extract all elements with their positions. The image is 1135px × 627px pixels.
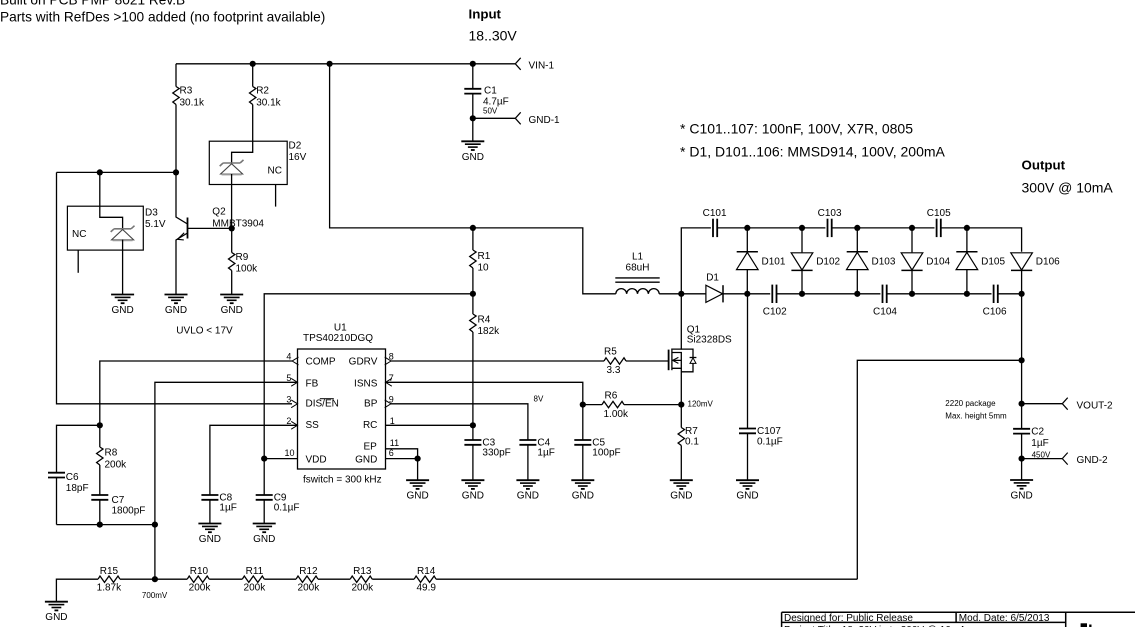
svg-text:300V @ 10mA: 300V @ 10mA <box>1022 180 1114 196</box>
diode D2 (zener, boxed) <box>209 141 306 229</box>
svg-text:D104: D104 <box>926 256 950 267</box>
wire FB to divider <box>155 382 298 579</box>
wire ISNS to R6 <box>386 382 583 404</box>
svg-text:BP: BP <box>364 398 378 409</box>
node UVLO-D3 <box>97 169 103 175</box>
wire UVLO rail <box>57 171 177 173</box>
svg-text:C102: C102 <box>763 306 787 317</box>
svg-text:GND-1: GND-1 <box>529 115 561 126</box>
ground R7 <box>670 480 693 502</box>
svg-text:C7: C7 <box>112 495 125 506</box>
wire to GND-2 terminal <box>1022 458 1063 460</box>
op-amp U1 (controller TPS40210DGQ) <box>284 323 399 470</box>
node top D105 <box>964 225 970 231</box>
svg-text:C6: C6 <box>66 472 79 483</box>
resistor R13 <box>350 566 374 594</box>
wire COMP to compensation <box>100 361 292 425</box>
svg-text:49.9: 49.9 <box>416 583 436 594</box>
node bottom D106 <box>1019 291 1025 297</box>
wire EP pin <box>386 449 418 459</box>
resistor R1 <box>470 228 491 294</box>
wire VIN feed down and across <box>330 64 616 294</box>
node bottom D103 <box>854 291 860 297</box>
svg-text:C2: C2 <box>1031 426 1044 437</box>
svg-text:COMP: COMP <box>306 357 336 368</box>
ground C4 <box>516 480 539 502</box>
ground C8 <box>198 524 221 546</box>
resistor R12 <box>296 566 320 594</box>
ground C1 <box>461 118 484 163</box>
node VIN-feed <box>327 61 333 67</box>
diode D104 <box>901 228 950 294</box>
resistor R4 <box>470 294 500 426</box>
capacitor C105 <box>927 208 951 237</box>
inductor L1 <box>615 252 681 294</box>
node sense tap <box>1019 357 1025 363</box>
node COMP top <box>97 422 103 428</box>
svg-text:Input: Input <box>469 7 502 22</box>
svg-text:RC: RC <box>363 420 377 431</box>
svg-text:D1: D1 <box>706 273 719 284</box>
svg-text:GND: GND <box>355 455 377 466</box>
wire chain seg4 <box>318 578 350 580</box>
wire to VOUT-2 terminal <box>1022 403 1063 405</box>
svg-text:6: 6 <box>389 448 394 458</box>
wire GND pin <box>386 459 418 481</box>
svg-text:EP: EP <box>363 442 377 453</box>
svg-text:R8: R8 <box>105 448 118 459</box>
svg-text:C101: C101 <box>703 208 727 219</box>
wire sense line <box>857 360 1021 579</box>
wire BP to C4 <box>391 404 528 440</box>
svg-text:200k: 200k <box>189 583 212 594</box>
svg-text:Designed for: Public Release: Designed for: Public Release <box>784 613 913 624</box>
node bottom D105 <box>964 291 970 297</box>
wire chain left to ground <box>56 579 98 602</box>
svg-text:U1: U1 <box>334 323 347 334</box>
node top D104 <box>909 225 915 231</box>
terminal GND-2 <box>1062 453 1108 467</box>
svg-text:NC: NC <box>72 229 86 240</box>
svg-text:200k: 200k <box>105 460 128 471</box>
capacitor C101 <box>703 208 727 237</box>
wire RC pin <box>386 424 473 426</box>
wire chain seg3 <box>264 578 296 580</box>
terminal VOUT-2 <box>1062 398 1113 412</box>
svg-text:C107: C107 <box>757 426 781 437</box>
capacitor C1 <box>464 64 508 119</box>
resistor R5 <box>604 347 669 377</box>
capacitor C6 <box>48 425 100 524</box>
svg-text:TPS40210DGQ: TPS40210DGQ <box>303 333 373 344</box>
svg-text:18pF: 18pF <box>66 483 89 494</box>
svg-text:D106: D106 <box>1036 256 1060 267</box>
svg-text:R5: R5 <box>604 347 617 358</box>
ground C2 <box>1010 459 1033 502</box>
svg-text:200k: 200k <box>351 583 374 594</box>
node GND-2 <box>1019 456 1025 462</box>
capacitor C102 <box>763 285 787 318</box>
resistor R3 <box>173 64 205 173</box>
svg-text:R4: R4 <box>478 315 491 326</box>
resistor R9 <box>229 228 259 294</box>
svg-text:3: 3 <box>286 395 291 405</box>
svg-text:30.1k: 30.1k <box>180 98 205 109</box>
logo (partial TI mark) <box>1081 623 1092 627</box>
diode D3 (zener, boxed) <box>67 172 166 294</box>
wire chain seg1 <box>155 578 187 580</box>
node top D102 <box>799 225 805 231</box>
svg-text:5.1V: 5.1V <box>145 219 166 230</box>
node UVLO-R3-Q2 <box>173 169 179 175</box>
node VDD-C9 <box>261 456 267 462</box>
svg-text:D2: D2 <box>289 141 302 152</box>
svg-text:68uH: 68uH <box>626 263 650 274</box>
svg-text:R9: R9 <box>236 252 249 263</box>
svg-text:700mV: 700mV <box>142 591 168 600</box>
wire mult bottom rail 2 <box>777 293 881 295</box>
svg-text:0.1µF: 0.1µF <box>274 503 300 514</box>
svg-text:10: 10 <box>284 448 294 458</box>
svg-text:1.00k: 1.00k <box>604 409 629 420</box>
svg-text:C103: C103 <box>818 208 842 219</box>
ground U1 <box>406 480 429 502</box>
svg-text:C104: C104 <box>873 306 897 317</box>
wire mult bottom rail 1 <box>747 293 770 295</box>
svg-text:200k: 200k <box>298 583 321 594</box>
wire output column <box>1021 294 1023 429</box>
transistor Q1 <box>669 294 732 405</box>
svg-text:R11: R11 <box>246 566 264 577</box>
wire mult bottom rail 4 <box>998 293 1022 295</box>
svg-text:R14: R14 <box>417 566 436 577</box>
svg-text:D105: D105 <box>981 256 1005 267</box>
ground Q2 <box>165 295 188 317</box>
capacitor C7 <box>91 495 145 525</box>
node 700mV <box>152 576 158 582</box>
capacitor C3 <box>464 425 510 480</box>
svg-text:R1: R1 <box>478 251 491 262</box>
node comp bottom right <box>152 522 158 528</box>
svg-text:C106: C106 <box>983 306 1007 317</box>
svg-text:D103: D103 <box>872 256 896 267</box>
wire to GND-1 terminal <box>473 117 516 119</box>
diode D1 <box>681 273 747 303</box>
diode D103 <box>847 228 896 294</box>
svg-text:VOUT-2: VOUT-2 <box>1077 400 1114 411</box>
resistor R14 <box>414 566 436 594</box>
svg-text:VDD: VDD <box>306 455 327 466</box>
svg-text:D101: D101 <box>762 256 786 267</box>
svg-text:VIN-1: VIN-1 <box>529 60 555 71</box>
capacitor C2 <box>1013 426 1051 459</box>
svg-text:D3: D3 <box>145 208 158 219</box>
svg-text:ISNS: ISNS <box>354 378 378 389</box>
svg-text:UVLO < 17V: UVLO < 17V <box>176 326 233 337</box>
wire mult bottom rail 3 <box>887 293 992 295</box>
svg-text:200k: 200k <box>244 583 267 594</box>
diode D101 <box>737 228 786 294</box>
svg-text:D102: D102 <box>816 256 840 267</box>
resistor R15 <box>97 566 155 594</box>
svg-text:182k: 182k <box>478 326 501 337</box>
node GND-1 junction <box>470 115 476 121</box>
node VOUT-2 <box>1019 401 1025 407</box>
svg-text:4: 4 <box>286 352 291 362</box>
diode D106 <box>1011 253 1060 294</box>
node Q2 base <box>229 225 235 231</box>
svg-text:C1: C1 <box>484 86 497 97</box>
diode D105 <box>956 228 1005 294</box>
svg-text:FB: FB <box>306 378 319 389</box>
transistor Q2 <box>176 172 264 294</box>
svg-text:11: 11 <box>390 438 399 448</box>
svg-text:100k: 100k <box>236 264 259 275</box>
svg-text:1800pF: 1800pF <box>112 506 146 517</box>
svg-text:100pF: 100pF <box>592 448 620 459</box>
ground R9 <box>220 295 243 317</box>
resistor R6 <box>583 391 682 421</box>
node VDD-R1-R4 <box>470 291 476 297</box>
node RC-R4-C3 <box>470 422 476 428</box>
capacitor C5 <box>574 405 620 481</box>
svg-text:Mod. Date: 6/5/2013: Mod. Date: 6/5/2013 <box>959 613 1050 624</box>
svg-text:120mV: 120mV <box>688 400 714 409</box>
svg-text:30.1k: 30.1k <box>256 98 281 109</box>
svg-text:fswitch = 300 kHz: fswitch = 300 kHz <box>303 475 382 486</box>
wire compensation bottom <box>57 524 155 526</box>
node R1 top <box>470 225 476 231</box>
resistor R2 <box>250 64 282 141</box>
svg-text:0.1µF: 0.1µF <box>757 437 783 448</box>
wire GDRV to gate <box>391 360 604 362</box>
svg-text:NC: NC <box>268 166 282 177</box>
svg-text:Output: Output <box>1022 157 1066 172</box>
svg-text:1.87k: 1.87k <box>97 583 122 594</box>
capacitor C8 <box>201 493 236 524</box>
svg-text:5: 5 <box>286 373 291 383</box>
svg-text:R6: R6 <box>605 391 618 402</box>
wire mult top rail 1 <box>717 227 825 229</box>
svg-text:7: 7 <box>389 373 394 383</box>
node top D101 <box>744 225 750 231</box>
svg-text:Built on PCB PMP 8021 Rev.B: Built on PCB PMP 8021 Rev.B <box>0 0 185 8</box>
wire SS to C8 <box>210 425 298 495</box>
svg-text:16V: 16V <box>289 152 307 163</box>
svg-text:2220 package: 2220 package <box>945 399 996 408</box>
node comp bottom left <box>97 522 103 528</box>
capacitor C103 <box>818 208 842 237</box>
node bottom D104 <box>909 291 915 297</box>
svg-text:1µF: 1µF <box>219 503 236 514</box>
svg-text:R12: R12 <box>299 566 318 577</box>
wire chain seg5 <box>372 578 414 580</box>
svg-text:R15: R15 <box>100 566 119 577</box>
resistor R7 <box>678 405 699 481</box>
svg-text:C105: C105 <box>927 208 951 219</box>
svg-text:GDRV: GDRV <box>349 357 378 368</box>
svg-text:2: 2 <box>286 416 291 426</box>
svg-text:8V: 8V <box>534 395 544 404</box>
wire VDD feed <box>264 294 473 459</box>
node VIN-R2 <box>250 61 256 67</box>
svg-text:MMBT3904: MMBT3904 <box>212 219 264 230</box>
svg-text:Si2328DS: Si2328DS <box>687 334 732 345</box>
wire switch to multiplier top <box>681 228 711 294</box>
wire chain seg2 <box>209 578 242 580</box>
svg-text:L1: L1 <box>632 252 644 263</box>
svg-text:1µF: 1µF <box>537 448 554 459</box>
svg-text:R10: R10 <box>190 566 209 577</box>
ground C107 <box>736 480 759 502</box>
title block <box>782 612 1135 627</box>
svg-text:Q2: Q2 <box>212 206 226 217</box>
svg-text:R2: R2 <box>256 86 269 97</box>
svg-text:Parts with RefDes >100 added (: Parts with RefDes >100 added (no footpri… <box>0 10 325 25</box>
svg-text:SS: SS <box>306 420 320 431</box>
ground chain <box>45 602 68 624</box>
wire mult top rail 3 <box>941 228 1022 252</box>
svg-text:* D1, D101..106: MMSD914, 100V: * D1, D101..106: MMSD914, 100V, 200mA <box>680 143 946 159</box>
svg-text:Max. height 5mm: Max. height 5mm <box>945 412 1007 421</box>
node bottom D102 <box>799 291 805 297</box>
ground C5 <box>571 480 594 502</box>
capacitor C104 <box>873 285 897 318</box>
terminal VIN-1 <box>515 58 554 72</box>
svg-text:10: 10 <box>478 263 490 274</box>
svg-text:1: 1 <box>390 416 395 426</box>
diode D102 <box>791 228 840 294</box>
svg-text:R3: R3 <box>180 86 193 97</box>
svg-text:50V: 50V <box>483 107 498 116</box>
svg-text:330pF: 330pF <box>482 448 510 459</box>
capacitor C9 <box>256 459 300 524</box>
ground C3 <box>461 480 484 502</box>
capacitor C4 <box>519 437 554 480</box>
svg-text:GND-2: GND-2 <box>1077 455 1109 466</box>
capacitor C106 <box>983 285 1007 318</box>
node 120mV <box>678 402 684 408</box>
node VIN-C1 <box>470 61 476 67</box>
svg-text:DIS/EN: DIS/EN <box>306 398 339 409</box>
wire VIN top rail <box>176 63 515 65</box>
svg-text:1µF: 1µF <box>1031 438 1048 449</box>
terminal GND-1 <box>515 112 560 126</box>
ground C9 <box>253 524 276 546</box>
resistor R11 <box>242 566 266 594</box>
node EP-GND <box>415 456 421 462</box>
capacitor C107 <box>739 294 783 480</box>
node switch <box>678 291 684 297</box>
node top D103 <box>854 225 860 231</box>
svg-text:R7: R7 <box>685 426 698 437</box>
resistor R8 <box>97 425 128 495</box>
svg-text:3.3: 3.3 <box>607 365 621 376</box>
node ISNS-R6-C5 <box>580 402 586 408</box>
svg-text:18..30V: 18..30V <box>469 28 518 44</box>
ground D3 <box>111 295 134 317</box>
node bottom D101 <box>744 291 750 297</box>
svg-text:* C101..107: 100nF, 100V, X7R,: * C101..107: 100nF, 100V, X7R, 0805 <box>680 121 913 137</box>
svg-text:0.1: 0.1 <box>685 437 699 448</box>
svg-text:R13: R13 <box>353 566 372 577</box>
wire mult top rail 2 <box>832 227 935 229</box>
resistor R10 <box>187 566 211 594</box>
wire UVLO to DIS pin <box>57 172 293 403</box>
wire chain to sense <box>436 578 857 580</box>
